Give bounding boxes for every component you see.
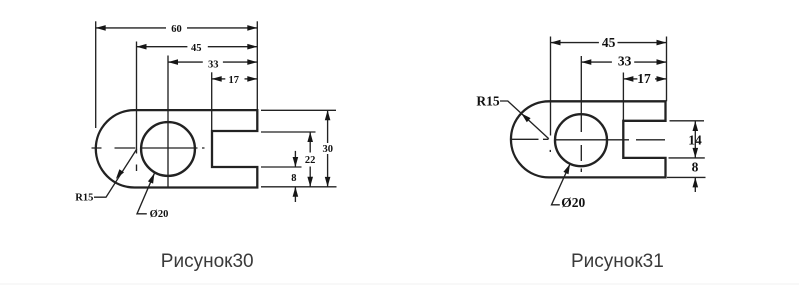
figure 30 arrowhead 45 right <box>247 44 257 50</box>
figure 31 arrowhead 33 right <box>657 59 667 65</box>
figure 30 Ø20 leader <box>137 173 154 214</box>
figure 30 arrowhead 8 up <box>293 187 299 197</box>
figure 31 circle centerline dot <box>580 169 582 173</box>
svg-text:Рисунок30: Рисунок30 <box>161 251 254 272</box>
figure 31 arrowhead 14 top <box>693 121 699 131</box>
figure 31 Ø20 leader <box>552 164 571 205</box>
figure 30 extension line x=136.5 (45 dim / arc centerline) <box>136 42 138 154</box>
figure 31 dimension line 14 <box>694 121 696 158</box>
figure 31 right extension line y=177.3 (bottom) <box>667 176 706 178</box>
svg-text:Ø20: Ø20 <box>150 209 169 220</box>
figure 30 hole circle Ø20 <box>141 122 195 176</box>
svg-text:Рисунок31: Рисунок31 <box>571 251 664 272</box>
figure 30 dimension line 22 <box>309 132 311 153</box>
figure 30 right extension line y=186.5 (bottom) <box>261 186 337 188</box>
figure 31 arrowhead 8 up <box>693 177 699 187</box>
figure 31 arrowhead 17 left <box>623 76 633 82</box>
figure 30 arrowhead 17 right <box>247 76 257 82</box>
svg-text:45: 45 <box>191 43 202 54</box>
figure 30 R15 arrowhead <box>116 169 124 179</box>
figure 31 extension line x=581.3 (33 dim / circle centerline) <box>580 56 582 132</box>
svg-text:R15: R15 <box>75 193 93 204</box>
svg-text:14: 14 <box>688 133 702 148</box>
figure 31 arrowhead 33 left <box>581 59 591 65</box>
figure 31 circle centerline lower dash <box>580 145 582 161</box>
figure 31 extension line x=623.4 (17 dim) <box>622 73 624 121</box>
figure 30 arrowhead 30 top <box>325 110 331 120</box>
svg-text:8: 8 <box>692 160 699 175</box>
figure 31 extension line x=666.5 (right edge) <box>666 37 668 102</box>
figure 30 right extension line y=167 (slot bottom) <box>261 166 302 168</box>
figure 31 dimension line 17 <box>623 78 637 80</box>
svg-text:17: 17 <box>229 75 240 86</box>
figure 31 part outline <box>511 101 666 177</box>
figure 31 dimension line 45 <box>551 42 599 44</box>
figure 30 arrowhead 33 right <box>247 59 257 65</box>
svg-text:17: 17 <box>637 71 651 86</box>
figure 31 dimension line 33 <box>581 61 612 63</box>
figure 30 extension line x=168 (33 dim / circle centerline) <box>167 56 169 188</box>
figure 30 arrowhead 30 bottom <box>325 177 331 187</box>
svg-text:R15: R15 <box>476 94 499 109</box>
figure 30 dimension line 45 <box>137 46 188 48</box>
figure 31 R15 leader <box>500 101 549 139</box>
figure 30 arrowhead 8 down <box>293 157 299 167</box>
figure 30 dimension line 33 <box>168 61 203 63</box>
figure 30 arrowhead 22 top <box>307 132 313 142</box>
faint bottom rule <box>0 283 799 285</box>
svg-text:30: 30 <box>323 144 334 155</box>
figure 30 horizontal centerline <box>92 147 205 149</box>
figure 31 right extension line y=150 (slot bottom) <box>669 157 705 159</box>
svg-text:Ø20: Ø20 <box>561 195 585 210</box>
figure 30 extension line x=95.7 (60 dim) <box>95 21 97 128</box>
figure 30 dimension line 30 <box>327 110 329 143</box>
figure 30 R15 leader <box>94 149 137 197</box>
figure 30 Ø20 arrowhead <box>148 173 155 183</box>
figure 30 arrowhead 60 left <box>96 25 106 31</box>
figure 31 arrowhead 45 left <box>551 40 561 46</box>
figure 30 arrowhead 17 left <box>212 76 222 82</box>
figure 30 arrowhead 45 left <box>137 44 147 50</box>
figure 31 hole circle Ø20 <box>555 114 607 166</box>
figure 30 right extension line y=110.3 <box>261 109 336 111</box>
figure 31 arrowhead 45 right <box>657 40 667 46</box>
figure 30 extension line x=211.7 (17 dim) <box>211 72 213 131</box>
figure 30 centerline dash below arc center <box>136 165 138 172</box>
figure 31 arrowhead 17 right <box>657 76 667 82</box>
figure 30 arrowhead 22 bottom <box>307 177 313 187</box>
figure 30 dimension line 8 lower <box>294 187 296 202</box>
figure 30 extension line x=257.3 (right edge) <box>256 21 258 110</box>
svg-text:60: 60 <box>171 24 182 35</box>
figure 30 right extension line y=132 (slot top) <box>261 131 316 133</box>
figure 31 right extension line y=121 (slot top) <box>670 120 705 122</box>
figure 30 dimension line 60 <box>96 27 166 29</box>
figure 31 Ø20 arrowhead <box>563 164 570 174</box>
svg-text:22: 22 <box>305 155 316 166</box>
figure 30 dimension line 8 upper <box>294 151 296 167</box>
figure 30 arrowhead 60 right <box>247 25 257 31</box>
figure 31 arrowhead 14 bottom <box>693 148 699 158</box>
svg-text:33: 33 <box>618 54 632 69</box>
figure 30 dimension line 17 <box>212 78 226 80</box>
figure 31 extension line x=550.5 (45 dim / arc centerline) <box>550 37 552 136</box>
figure 31 dimension line 8 lower <box>694 177 696 192</box>
figure 30 part outline <box>96 110 257 187</box>
svg-text:8: 8 <box>291 173 296 184</box>
figure 31 horizontal centerline <box>512 138 666 141</box>
figure 30 arrowhead 33 left <box>168 59 178 65</box>
svg-text:45: 45 <box>602 35 616 50</box>
svg-text:33: 33 <box>208 59 219 70</box>
figure 31 R15 arrowhead <box>521 113 530 122</box>
figure 31 centerline dot below arc center <box>549 150 551 152</box>
